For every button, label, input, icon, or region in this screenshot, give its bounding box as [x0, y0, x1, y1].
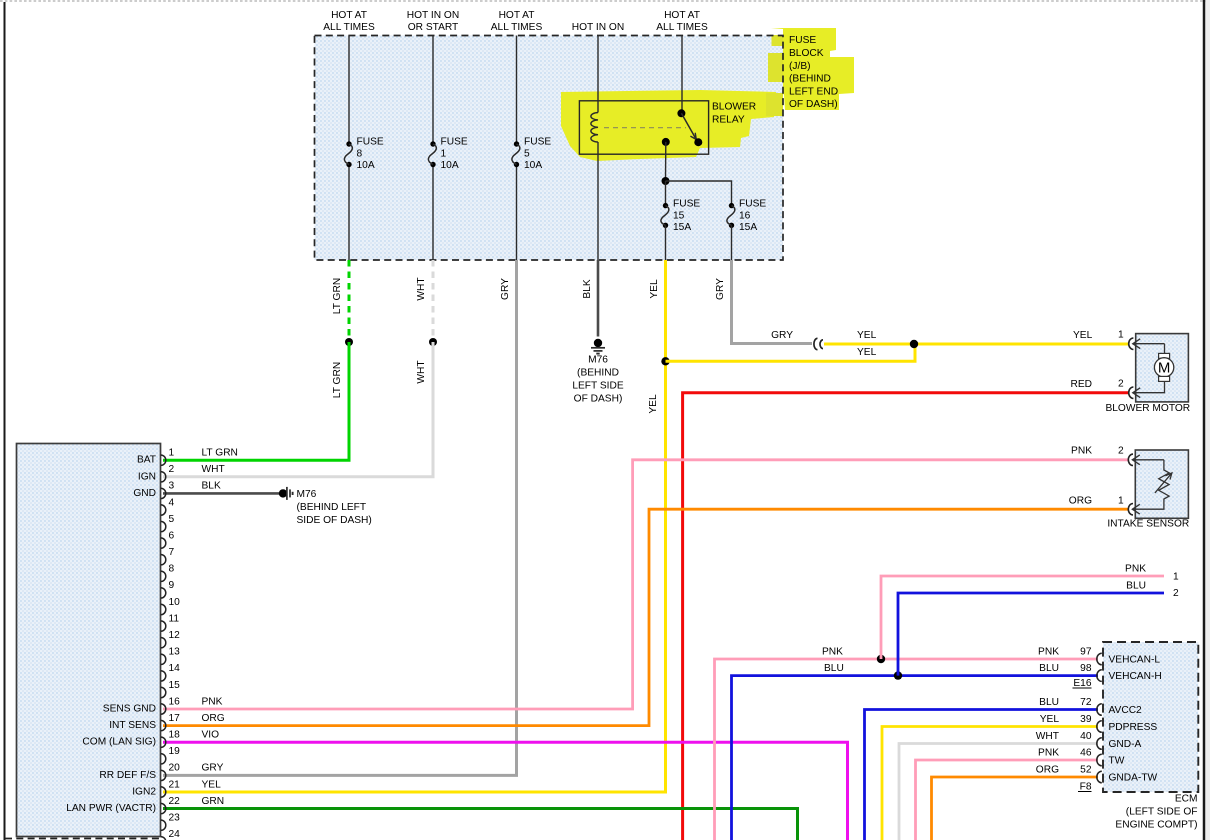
svg-text:VEHCAN-L: VEHCAN-L: [1109, 655, 1161, 666]
dashed line below connector: [5, 838, 160, 840]
svg-text:52: 52: [1080, 765, 1092, 776]
pin 9: [161, 580, 175, 598]
svg-text:BLU: BLU: [1126, 581, 1146, 592]
svg-text:PNK: PNK: [202, 696, 223, 707]
svg-text:SIDE OF DASH): SIDE OF DASH): [297, 515, 372, 526]
svg-text:M76: M76: [588, 355, 608, 366]
svg-text:IGN: IGN: [138, 471, 156, 482]
wire YEL inline connector to blower motor pin 1: [824, 343, 1129, 346]
svg-text:BLOWER: BLOWER: [712, 102, 756, 113]
ECM pin 52 connector: [1097, 771, 1102, 783]
pin 10: [161, 597, 180, 615]
svg-text:5: 5: [169, 514, 175, 525]
svg-text:PNK: PNK: [1038, 748, 1059, 759]
blower motor box: [1136, 334, 1189, 402]
thermistor symbol: [1132, 460, 1172, 509]
svg-text:10A: 10A: [441, 160, 459, 171]
svg-text:22: 22: [169, 796, 181, 807]
svg-text:YEL: YEL: [857, 330, 877, 341]
svg-text:LT GRN: LT GRN: [202, 448, 238, 459]
svg-text:BLK: BLK: [582, 279, 593, 298]
svg-text:FUSE: FUSE: [357, 137, 384, 148]
pin 23: [161, 813, 180, 831]
wire YEL branch to junction at blower motor feed: [666, 344, 916, 361]
junction PNK vehcan: [877, 655, 885, 663]
svg-text:SENS GND: SENS GND: [103, 704, 156, 715]
ECM pin 40 connector: [1097, 738, 1102, 750]
inline connector GRY/YEL: [814, 338, 823, 349]
svg-text:16: 16: [169, 696, 181, 707]
svg-text:(J/B): (J/B): [789, 61, 811, 72]
svg-text:(BEHIND: (BEHIND: [577, 368, 619, 379]
wire YEL from fuse 15 to pin 21: [163, 260, 666, 792]
pin 15: [161, 680, 180, 698]
wire BLU to ECM VEHCAN-H: [732, 676, 1099, 840]
svg-text:OF DASH): OF DASH): [789, 99, 838, 110]
svg-text:2: 2: [1173, 588, 1179, 599]
svg-text:17: 17: [169, 713, 181, 724]
relay coil: [591, 113, 598, 143]
wire PNK to ECM VEHCAN-L: [715, 659, 1099, 840]
svg-text:ORG: ORG: [202, 713, 225, 724]
svg-text:WHT: WHT: [1036, 731, 1059, 742]
svg-text:(LEFT SIDE OF: (LEFT SIDE OF: [1126, 807, 1198, 818]
junction YEL at motor feed: [910, 340, 918, 348]
svg-text:10A: 10A: [524, 160, 542, 171]
highlight over blower relay: [561, 90, 776, 161]
pin 4: [161, 497, 175, 515]
svg-text:YEL: YEL: [857, 347, 877, 358]
svg-text:15A: 15A: [673, 222, 691, 233]
svg-text:HOT AT: HOT AT: [664, 10, 700, 21]
wire BLU branch to pin 2 (top right): [898, 593, 1164, 676]
pin 16: [161, 696, 180, 714]
svg-text:PNK: PNK: [822, 646, 843, 657]
svg-text:1: 1: [1118, 330, 1124, 341]
wire: junction to fuse 15: [665, 181, 667, 206]
svg-text:PDPRESS: PDPRESS: [1109, 722, 1158, 733]
svg-text:YEL: YEL: [1040, 714, 1060, 725]
svg-text:FUSE: FUSE: [441, 137, 468, 148]
svg-text:GNDA-TW: GNDA-TW: [1109, 773, 1158, 784]
svg-text:ORG: ORG: [1069, 496, 1092, 507]
svg-text:BLOWER MOTOR: BLOWER MOTOR: [1105, 403, 1190, 414]
pin left labels: [66, 455, 156, 814]
svg-text:COM (LAN SIG): COM (LAN SIG): [82, 737, 156, 748]
pin 11: [161, 613, 180, 631]
pin 2: [161, 464, 175, 482]
wire WHT to ECM GND-A: [899, 744, 1098, 840]
junction on YEL: [661, 357, 669, 365]
pin 21: [161, 779, 180, 797]
svg-text:M76: M76: [297, 489, 317, 500]
relay label: [712, 102, 756, 126]
junction at fuse 15/16: [662, 177, 670, 185]
fuse F15 15A: [661, 199, 701, 261]
wire PNK to ECM TW: [916, 760, 1099, 840]
svg-text:FUSE: FUSE: [789, 35, 816, 46]
svg-text:RELAY: RELAY: [712, 114, 745, 125]
svg-text:ALL TIMES: ALL TIMES: [491, 22, 543, 33]
pin 5: [161, 514, 175, 532]
wire PNK branch to pin 1 (top right): [881, 576, 1164, 659]
svg-text:40: 40: [1080, 731, 1092, 742]
feed label HOT AT ALL TIMES (fuse 8): [323, 10, 375, 33]
fuse F5 10A: [512, 137, 552, 172]
fuse F16 15A: [727, 199, 767, 261]
svg-text:GRY: GRY: [202, 763, 224, 774]
feed label HOT AT ALL TIMES (relay contact): [656, 10, 708, 33]
pin 13: [161, 647, 180, 665]
intake sensor pin 1 connector: [1128, 504, 1140, 515]
wire LT GRN to pin 1: [163, 342, 349, 460]
svg-text:FUSE: FUSE: [739, 199, 766, 210]
feed label HOT IN ON (relay coil): [572, 22, 624, 33]
svg-text:5: 5: [524, 149, 530, 160]
pin 1: [161, 448, 175, 466]
svg-text:LT GRN: LT GRN: [332, 362, 343, 398]
svg-text:RED: RED: [1070, 379, 1092, 390]
pin 3: [161, 481, 175, 499]
connector label E16: [1073, 678, 1092, 689]
wire WHT to pin 2: [163, 342, 433, 477]
svg-text:15: 15: [673, 210, 685, 221]
svg-text:YEL: YEL: [649, 279, 660, 299]
svg-text:15A: 15A: [739, 222, 757, 233]
svg-text:10: 10: [169, 597, 181, 608]
ECM wire color labels: [1036, 647, 1060, 776]
svg-text:RR DEF F/S: RR DEF F/S: [99, 770, 156, 781]
svg-text:21: 21: [169, 779, 181, 790]
svg-text:BLU: BLU: [1039, 663, 1059, 674]
feed label HOT IN ON OR START (fuse 1): [407, 10, 459, 33]
relay switch: [662, 109, 703, 146]
svg-text:4: 4: [169, 497, 175, 508]
motor internal wire bottom: [1133, 381, 1165, 392]
wire VIO pin 18: [163, 742, 848, 840]
svg-text:ALL TIMES: ALL TIMES: [656, 22, 708, 33]
ECM pin 46 connector: [1097, 754, 1102, 766]
svg-text:WHT: WHT: [202, 464, 225, 475]
svg-text:HOT AT: HOT AT: [499, 10, 535, 21]
svg-text:GRY: GRY: [500, 278, 511, 300]
svg-text:WHT: WHT: [416, 277, 427, 300]
svg-text:E16: E16: [1073, 678, 1091, 689]
wire: feed to relay contact: [681, 36, 683, 114]
wire RED blower motor pin 2: [683, 393, 1129, 840]
svg-text:97: 97: [1080, 647, 1092, 658]
svg-text:PNK: PNK: [1038, 647, 1059, 658]
wire GRN pin 22: [163, 809, 798, 840]
svg-text:14: 14: [169, 663, 181, 674]
svg-text:LT GRN: LT GRN: [332, 278, 343, 314]
svg-text:IGN2: IGN2: [132, 787, 156, 798]
blower relay box: [579, 101, 708, 154]
svg-text:BAT: BAT: [137, 455, 156, 466]
splice on WHT: [429, 338, 437, 346]
svg-text:YEL: YEL: [202, 779, 222, 790]
wire BLU to ECM AVCC2: [865, 710, 1099, 840]
ECM pin numbers: [1080, 647, 1092, 776]
ECM pin 98 connector: [1097, 670, 1102, 682]
svg-text:16: 16: [739, 210, 751, 221]
svg-text:FUSE: FUSE: [524, 137, 551, 148]
svg-text:7: 7: [169, 547, 175, 558]
pin 6: [161, 530, 175, 548]
ECM pin labels inside: [1109, 655, 1162, 784]
motor internal wire top: [1164, 344, 1166, 354]
svg-text:F8: F8: [1080, 782, 1092, 793]
pin 18: [161, 730, 180, 748]
wire LT GRN dashed segment below fuse 8: [348, 260, 351, 342]
intake sensor pin 2 connector: [1128, 454, 1164, 465]
svg-text:GRN: GRN: [202, 796, 225, 807]
svg-text:M: M: [1158, 360, 1171, 377]
svg-text:11: 11: [169, 613, 180, 624]
wire: junction to fuse 16: [666, 181, 732, 206]
svg-text:2: 2: [1118, 445, 1124, 456]
svg-text:PNK: PNK: [1071, 445, 1092, 456]
svg-text:YEL: YEL: [648, 394, 659, 414]
svg-text:BLK: BLK: [202, 481, 221, 492]
svg-text:HOT IN ON: HOT IN ON: [407, 10, 459, 21]
svg-text:LEFT END: LEFT END: [789, 86, 838, 97]
wire WHT dashed segment below fuse 1: [432, 260, 435, 342]
wire: feed to fuse 5: [516, 36, 518, 261]
svg-text:46: 46: [1080, 748, 1092, 759]
svg-text:GRY: GRY: [771, 330, 793, 341]
wire: relay output to fuse 15/16 junction: [665, 142, 667, 181]
svg-text:PNK: PNK: [1125, 564, 1146, 575]
blower motor pin 2 connector: [1129, 387, 1141, 398]
svg-text:2: 2: [1118, 379, 1124, 390]
svg-text:19: 19: [169, 746, 181, 757]
svg-text:15: 15: [169, 680, 181, 691]
svg-text:AVCC2: AVCC2: [1109, 705, 1143, 716]
svg-text:6: 6: [169, 530, 175, 541]
fuse F1 10A: [428, 137, 468, 172]
svg-text:(BEHIND: (BEHIND: [789, 74, 831, 85]
ground M76 (behind left side of dash, pin 3): [279, 487, 372, 526]
svg-text:GND-A: GND-A: [1109, 739, 1142, 750]
pin 8: [161, 564, 175, 582]
fuse block (J/B) box fill: [315, 36, 784, 261]
blower motor pin 1 connector: [1129, 338, 1165, 349]
connector label F8: [1078, 782, 1092, 793]
svg-text:INTAKE SENSOR: INTAKE SENSOR: [1107, 519, 1189, 530]
svg-text:9: 9: [169, 580, 175, 591]
svg-text:8: 8: [169, 564, 175, 575]
pin wire color labels: [202, 448, 238, 807]
svg-text:LAN PWR (VACTR): LAN PWR (VACTR): [66, 803, 156, 814]
svg-text:98: 98: [1080, 663, 1092, 674]
svg-text:GRY: GRY: [715, 278, 726, 300]
wire: feed through relay coil: [597, 36, 599, 261]
svg-text:YEL: YEL: [1073, 330, 1093, 341]
intake sensor box: [1135, 450, 1188, 518]
svg-text:3: 3: [169, 481, 175, 492]
pin 20: [161, 763, 180, 781]
wire GRY from fuse 16 to inline connector: [732, 260, 813, 344]
pin 22: [161, 796, 180, 814]
pin 7: [161, 547, 175, 565]
ECM pin 72 connector: [1097, 704, 1102, 716]
svg-text:INT SENS: INT SENS: [109, 720, 156, 731]
svg-text:(BEHIND LEFT: (BEHIND LEFT: [297, 502, 367, 513]
wire: feed to fuse 8: [348, 36, 350, 261]
pin 12: [161, 630, 180, 648]
ground M76 (behind left side of dash): [572, 339, 624, 405]
svg-text:BLU: BLU: [824, 663, 844, 674]
svg-text:2: 2: [169, 464, 175, 475]
svg-text:GND: GND: [133, 488, 156, 499]
svg-text:VEHCAN-H: VEHCAN-H: [1109, 671, 1162, 682]
ECM caption: [1115, 794, 1197, 831]
svg-text:ECM: ECM: [1175, 794, 1198, 805]
svg-text:13: 13: [169, 647, 181, 658]
svg-text:FUSE: FUSE: [673, 199, 700, 210]
svg-text:18: 18: [169, 730, 181, 741]
wire: feed to fuse 1: [432, 36, 434, 261]
svg-text:12: 12: [169, 630, 181, 641]
svg-text:VIO: VIO: [202, 730, 220, 741]
fuse block (J/B) box border: [315, 36, 784, 261]
svg-text:HOT AT: HOT AT: [331, 10, 367, 21]
fuse F8 10A: [344, 137, 384, 172]
svg-text:39: 39: [1080, 714, 1092, 725]
svg-text:1: 1: [1118, 496, 1124, 507]
wire BLK pin 3 to ground: [163, 492, 279, 495]
wire GRY from fuse 5 to pin 20: [163, 260, 517, 775]
ECM pin 39 connector: [1097, 721, 1102, 733]
motor symbol M: [1154, 353, 1173, 381]
svg-text:HOT IN ON: HOT IN ON: [572, 22, 624, 33]
svg-text:1: 1: [169, 448, 175, 459]
svg-text:10A: 10A: [357, 160, 375, 171]
svg-text:ENGINE COMPT): ENGINE COMPT): [1115, 820, 1197, 831]
highlight over fuse block label: [771, 28, 854, 110]
svg-text:72: 72: [1080, 697, 1092, 708]
svg-text:BLOCK: BLOCK: [789, 48, 824, 59]
wire ORG to ECM GNDA-TW: [932, 777, 1099, 840]
svg-text:TW: TW: [1109, 756, 1125, 767]
fuse block label: [789, 35, 838, 110]
svg-text:8: 8: [357, 149, 363, 160]
svg-text:20: 20: [169, 763, 181, 774]
ECM pin 97 connector: [1097, 653, 1102, 665]
svg-text:1: 1: [1173, 572, 1179, 583]
pin 19: [161, 746, 180, 764]
splice on LT GRN: [345, 338, 353, 346]
svg-text:WHT: WHT: [416, 360, 427, 383]
svg-text:1: 1: [441, 149, 447, 160]
junction BLU vehcan: [894, 671, 902, 679]
svg-text:24: 24: [169, 829, 181, 840]
wire BLK to ground M76: [597, 260, 600, 337]
feed label HOT AT ALL TIMES (fuse 5): [491, 10, 543, 33]
ECM box: [1103, 642, 1198, 792]
svg-text:OR START: OR START: [408, 22, 459, 33]
svg-text:LEFT SIDE: LEFT SIDE: [572, 381, 624, 392]
pin 24: [161, 829, 180, 840]
pin 17: [161, 713, 180, 731]
svg-text:23: 23: [169, 813, 181, 824]
pin 14: [161, 663, 180, 681]
wire PNK intake sensor pin 2 to connector pin 16: [163, 460, 1129, 709]
wire YEL to ECM PDPRESS: [882, 727, 1098, 840]
connector box (left, pins 1-24): [17, 444, 161, 837]
svg-text:ORG: ORG: [1036, 765, 1059, 776]
svg-text:BLU: BLU: [1039, 697, 1059, 708]
wire ORG intake sensor pin 1 to connector pin 17: [163, 509, 1129, 725]
svg-text:ALL TIMES: ALL TIMES: [323, 22, 375, 33]
relay link (dashed): [604, 127, 686, 129]
svg-text:OF DASH): OF DASH): [574, 394, 623, 405]
